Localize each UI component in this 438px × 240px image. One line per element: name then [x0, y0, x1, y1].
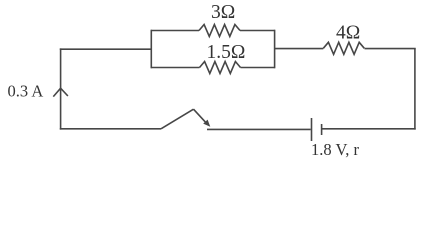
current direction arrow (upward chevron): [53, 88, 68, 96]
wire top branch left: [151, 30, 199, 32]
battery positive plate (long): [311, 118, 313, 141]
wire left vertical: [60, 48, 62, 129]
wire battery to bottom-right corner: [322, 128, 416, 130]
wire parallel box to resistor R3 (4 ohm): [275, 48, 324, 50]
wire top branch right: [240, 30, 275, 32]
wire top-right horizontal: [365, 48, 416, 50]
switch S1 lever: [161, 109, 194, 129]
svg-text:0.3 A: 0.3 A: [8, 81, 44, 100]
node: parallel box right junction: [274, 30, 276, 69]
resistor R3 4 ohm zigzag: [323, 42, 364, 54]
switch S1 closing arrow: [194, 109, 206, 122]
resistor R1 3 ohm zigzag: [199, 25, 240, 37]
wire switch to battery: [207, 128, 311, 130]
wire top-left horizontal: [60, 48, 152, 50]
svg-text:3Ω: 3Ω: [211, 2, 235, 23]
node: parallel box left junction: [150, 30, 152, 69]
wire bottom-left horizontal: [60, 128, 161, 130]
wire bottom branch right: [241, 67, 275, 69]
wire right vertical: [414, 48, 416, 129]
svg-text:4Ω: 4Ω: [336, 23, 360, 44]
wire bottom branch left: [151, 67, 199, 69]
svg-text:1.8 V, r: 1.8 V, r: [311, 140, 359, 159]
battery negative plate (short): [321, 124, 323, 135]
resistor R2 1.5 ohm zigzag: [200, 62, 241, 74]
svg-text:1.5Ω: 1.5Ω: [207, 42, 246, 63]
switch S1 arrowhead: [203, 120, 210, 127]
